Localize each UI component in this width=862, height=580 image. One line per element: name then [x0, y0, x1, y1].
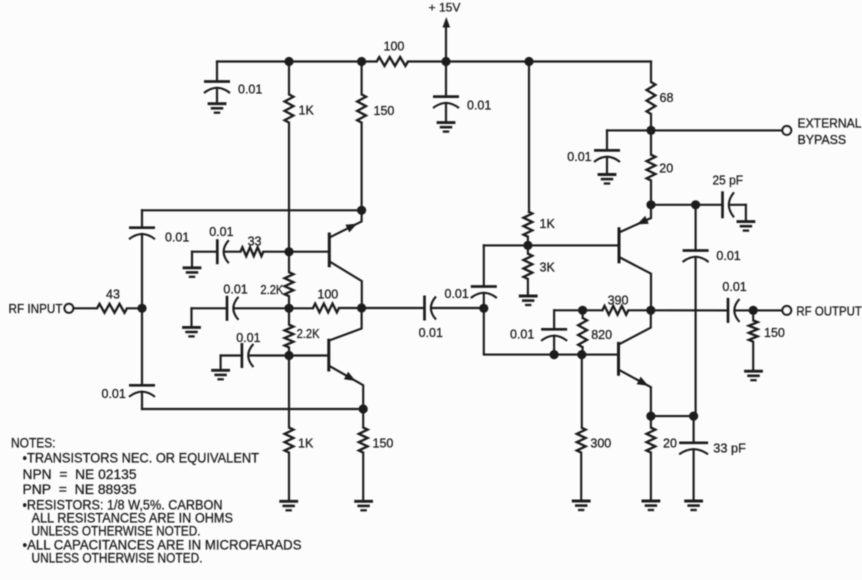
- node external bypass junction: [646, 126, 655, 135]
- power +15V arrow: [445, 26, 447, 62]
- wire 43 to input node: [127, 307, 142, 309]
- svg-text:33: 33: [248, 235, 262, 249]
- capacitor 25 pF: [721, 191, 724, 218]
- svg-text:0.01: 0.01: [165, 231, 189, 245]
- resistor 390 feedback: [602, 306, 628, 315]
- wire node A to Q1 base: [289, 251, 329, 253]
- svg-text:0.01: 0.01: [716, 249, 740, 263]
- ground for branch-1 cap: [183, 266, 202, 269]
- node RF input junction: [137, 304, 146, 313]
- transistor Q2 emitter lead with NPN arrow: [330, 366, 363, 409]
- ground for 33 pF cap: [684, 500, 703, 503]
- node bottom line cap junction: [550, 350, 559, 359]
- ground for +15V bypass cap: [437, 121, 456, 124]
- svg-text:2.2K: 2.2K: [260, 283, 284, 297]
- svg-text:0.01: 0.01: [567, 150, 591, 164]
- node rail +15V junction: [441, 57, 450, 66]
- ground for 25 pF cap: [737, 220, 756, 223]
- transistor Q4 base bar: [617, 343, 620, 374]
- wire +15V top rail: [217, 60, 377, 62]
- svg-text:0.01: 0.01: [419, 326, 443, 340]
- svg-text:NOTES:: NOTES:: [11, 435, 56, 450]
- ground for 300 resistor: [572, 500, 591, 503]
- svg-text:EXTERNAL: EXTERNAL: [798, 115, 862, 130]
- capacitor 0.01 supply bypass at +15V node: [445, 62, 447, 97]
- svg-text:1K: 1K: [298, 437, 314, 451]
- wire input to 43: [73, 307, 97, 309]
- resistor 68 second-stage supply: [647, 82, 656, 114]
- capacitor 0.01 branch-3: [220, 356, 222, 371]
- wire Q4 emitter bottom node: [651, 415, 694, 417]
- svg-text:RF OUTPUT: RF OUTPUT: [796, 303, 862, 318]
- svg-text:+ 15V: + 15V: [429, 1, 461, 15]
- wire interstage node down and right to Q4 base: [484, 308, 619, 354]
- wire rail right end down to 68: [650, 62, 652, 83]
- terminal RF OUTPUT: [782, 306, 791, 315]
- wire first-stage output line: [362, 307, 425, 309]
- svg-text:150: 150: [764, 326, 785, 340]
- svg-text:0.01: 0.01: [223, 283, 247, 297]
- node Q2 emitter / feedback junction: [359, 404, 368, 413]
- resistor 150 output termination: [752, 310, 754, 320]
- resistor 43 input: [97, 304, 127, 313]
- ground for output 150: [744, 370, 763, 373]
- ground for 3K: [519, 295, 538, 298]
- resistor 820: [582, 310, 584, 318]
- svg-text:0.01: 0.01: [722, 280, 746, 294]
- resistor 2.2K lower: [288, 308, 290, 324]
- svg-text:0.01: 0.01: [102, 387, 126, 401]
- wire 100 to first-stage output node: [339, 307, 362, 309]
- svg-text:0.01: 0.01: [467, 99, 491, 113]
- transistor Q1 emitter lead with arrow: [330, 210, 362, 237]
- svg-text:NPN = NE 02135: NPN = NE 02135: [23, 467, 137, 482]
- transistor Q4 collector lead: [620, 310, 651, 344]
- svg-text:UNLESS OTHERWISE NOTED.: UNLESS OTHERWISE NOTED.: [32, 524, 201, 539]
- ground for branch-2 cap: [182, 326, 201, 329]
- svg-text:0.01: 0.01: [510, 328, 534, 342]
- capacitor 0.01 output coupling: [727, 298, 730, 323]
- resistor 300 Q4 base return: [581, 355, 583, 428]
- svg-text:68: 68: [660, 91, 674, 105]
- node 33pF junction: [689, 412, 698, 421]
- wire 150 down to Q1 emitter node: [361, 123, 363, 211]
- terminal RF INPUT: [65, 304, 74, 313]
- node 820 top junction: [578, 306, 587, 315]
- node first-stage output junction: [357, 303, 366, 312]
- svg-text:390: 390: [608, 294, 629, 308]
- svg-text:0.01: 0.01: [236, 331, 260, 345]
- wire 1K to node A (crosses feedback line): [288, 123, 290, 252]
- resistor 33: [224, 251, 240, 253]
- node 1K/3K bias junction: [523, 241, 532, 250]
- transistor Q2 base bar: [327, 340, 330, 370]
- node 25pF/0.01 branch junction: [691, 200, 700, 209]
- resistor 3K second-stage bias lower: [527, 245, 529, 253]
- svg-text:0.01: 0.01: [209, 225, 233, 239]
- node rail 1K junction: [284, 57, 293, 66]
- node Q1 emitter / feedback junction: [357, 206, 366, 215]
- transistor Q4 emitter lead with NPN arrow: [620, 370, 651, 416]
- node Q3 emitter junction: [646, 200, 655, 209]
- wire bootstrap cap down to lower emitter node (crosses output line): [695, 257, 697, 416]
- ground for top-left 0.01 cap: [208, 102, 227, 105]
- node interstage junction: [479, 304, 488, 313]
- wire EXTERNAL BYPASS line: [607, 129, 782, 131]
- svg-text:•TRANSISTORS NEC. OR EQUIVALEN: •TRANSISTORS NEC. OR EQUIVALENT: [23, 451, 260, 466]
- svg-text:25 pF: 25 pF: [713, 174, 744, 188]
- ground for lower 1K: [279, 500, 298, 503]
- wire 820 top node line: [554, 309, 583, 311]
- svg-text:1K: 1K: [299, 104, 315, 118]
- resistor 1K first-stage bias lower: [288, 356, 290, 428]
- transistor Q3 base bar: [618, 229, 621, 262]
- wire branch-2 to node B: [234, 307, 289, 309]
- resistor 150 first-stage collector load upper: [361, 62, 363, 95]
- transistor Q1 collector lead: [330, 262, 362, 308]
- wire branch-3 to node C: [249, 354, 289, 356]
- svg-text:20: 20: [659, 162, 673, 176]
- transistor Q3 emitter lead with PNP arrow: [620, 205, 652, 233]
- svg-text:3K: 3K: [540, 261, 556, 275]
- capacitor 0.01 branch-2: [190, 308, 192, 327]
- wire node B to 100: [289, 307, 313, 309]
- wire rail to second-stage 1K bias: [528, 62, 530, 212]
- node B junction: [284, 304, 293, 313]
- capacitor 0.01 bootstrap (vertical chain): [695, 205, 697, 251]
- resistor 100 supply decoupling: [377, 57, 408, 66]
- node bottom line 820/300 junction: [577, 350, 586, 359]
- terminal EXTERNAL BYPASS: [782, 126, 791, 135]
- node Q4 emitter junction: [646, 412, 655, 421]
- resistor 20 Q4 emitter: [650, 416, 652, 428]
- ground for 20 resistor: [642, 500, 661, 503]
- svg-text:300: 300: [590, 437, 611, 451]
- svg-text:BYPASS: BYPASS: [798, 132, 847, 147]
- node C junction (Q2 base): [284, 351, 293, 360]
- resistor 150 Q2 emitter: [362, 409, 364, 428]
- wire Q3 emitter node to 25pF branch: [651, 204, 723, 206]
- svg-text:1K: 1K: [540, 217, 556, 231]
- transistor Q2 collector lead: [329, 308, 362, 341]
- capacitor 0.01 interstage coupling: [423, 296, 426, 321]
- svg-text:100: 100: [317, 288, 338, 302]
- svg-text:0.01: 0.01: [445, 287, 469, 301]
- ground for external bypass cap: [598, 173, 617, 176]
- capacitor 0.01 external bypass: [606, 130, 608, 150]
- wire RF output line: [651, 309, 728, 311]
- wire 33 to node A: [263, 251, 289, 253]
- node A junction (Q1 base): [284, 247, 293, 256]
- capacitor 0.01 interstage coupling to base line: [483, 245, 485, 286]
- svg-text:20: 20: [663, 437, 677, 451]
- capacitor 0.01 input lower feedback: [141, 308, 143, 385]
- ground for lower 150: [354, 500, 373, 503]
- svg-text:UNLESS OTHERWISE NOTED.: UNLESS OTHERWISE NOTED.: [32, 551, 203, 566]
- svg-text:0.01: 0.01: [238, 83, 262, 97]
- wire lower feedback line to Q2 emitter node (crosses 1K line): [142, 408, 363, 410]
- node Q3/Q4 output junction: [646, 306, 655, 315]
- node output 150 junction: [749, 306, 758, 315]
- transistor Q3 collector lead: [620, 258, 651, 311]
- ground for branch-3 cap: [211, 369, 230, 372]
- svg-text:RF INPUT: RF INPUT: [9, 301, 63, 316]
- resistor 20 PNP emitter feed: [650, 130, 652, 154]
- svg-text:43: 43: [106, 288, 120, 302]
- svg-text:100: 100: [384, 40, 405, 54]
- node rail second-stage feed junction: [524, 57, 533, 66]
- resistor 100 interstage: [313, 304, 339, 313]
- node rail 150 junction: [357, 57, 366, 66]
- svg-text:PNP = NE 88935: PNP = NE 88935: [23, 482, 137, 497]
- transistor Q1 base bar: [328, 234, 331, 266]
- capacitor 33 pF: [693, 416, 695, 443]
- svg-text:33 pF: 33 pF: [713, 442, 746, 456]
- resistor 1K second-stage bias upper: [524, 211, 533, 236]
- resistor 2.2K upper: [288, 252, 290, 273]
- svg-text:820: 820: [591, 328, 612, 342]
- wire upper feedback line to Q1 emitter node (crosses 1K line): [142, 209, 362, 211]
- wire node C to Q2 base: [289, 354, 329, 356]
- resistor 1K first-stage bias upper: [288, 62, 290, 95]
- capacitor 0.01 top-left rail bypass: [216, 62, 218, 82]
- capacitor 0.01 branch-1: [191, 252, 193, 268]
- capacitor 0.01 input upper feedback: [141, 234, 143, 308]
- svg-text:2.2K: 2.2K: [297, 327, 321, 341]
- svg-text:150: 150: [373, 437, 394, 451]
- capacitor 0.01 in Q4 base network: [553, 310, 555, 329]
- wire Q3 base line: [484, 244, 619, 246]
- svg-text:150: 150: [374, 104, 395, 118]
